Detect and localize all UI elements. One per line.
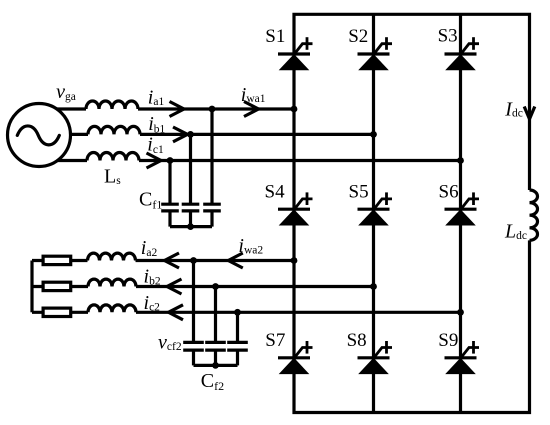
inductor load b — [88, 279, 136, 286]
resistor load c — [43, 308, 71, 316]
node phase c / Cf1 tap — [167, 157, 174, 164]
wire capacitor branch a1 — [210, 109, 213, 227]
resistor load b — [43, 282, 71, 290]
arrow ia1 — [170, 102, 185, 117]
wire converter leg 3 — [459, 14, 462, 412]
node load b / leg2 — [370, 283, 377, 290]
resistor load a — [43, 256, 71, 264]
svg-text:S7: S7 — [265, 330, 285, 351]
svg-text:S9: S9 — [438, 330, 458, 351]
arrow iwa1 — [244, 102, 259, 117]
wire load bus left — [30, 261, 33, 313]
capacitor Cf2 c plates — [227, 342, 248, 350]
inductor Ldc — [530, 190, 538, 240]
arrow ic1 — [147, 153, 162, 168]
wire load row a2 — [32, 259, 294, 262]
node phase c / leg3 — [457, 157, 464, 164]
wire Cf1 star bus — [170, 225, 212, 228]
node phase b / Cf1 tap — [187, 131, 194, 138]
switch S5 — [358, 192, 393, 225]
wire capacitor branch a2 — [192, 261, 195, 366]
arrow ib2 — [167, 279, 182, 294]
wire capacitor branch c2 — [236, 312, 239, 365]
svg-text:S8: S8 — [347, 330, 367, 351]
wire capacitor branch b2 — [214, 287, 217, 366]
switch S4 — [278, 192, 313, 225]
switch S6 — [445, 192, 480, 225]
wire phase a — [39, 107, 294, 110]
inductor Ls phase b — [88, 126, 140, 134]
node phase b / leg2 — [370, 131, 377, 138]
node load a / Cf2 tap — [190, 257, 197, 264]
inductor Ls phase a — [86, 101, 138, 109]
switch S8 — [358, 341, 393, 374]
node load c / Cf2 tap — [234, 309, 241, 316]
capacitor Cf1 a plates — [203, 204, 221, 211]
wire capacitor branch c1 — [168, 161, 171, 227]
capacitor Cf1 b plates — [182, 204, 200, 211]
switch S3 — [445, 37, 480, 70]
arrow ia2 — [165, 253, 180, 268]
svg-text:S1: S1 — [265, 26, 285, 47]
wire load row c2 — [32, 311, 461, 314]
svg-text:S4: S4 — [265, 181, 286, 202]
inductor Ls phase c — [87, 153, 139, 161]
wire load row b2 — [32, 285, 374, 288]
arrow ic2 — [169, 305, 184, 320]
wire phase b — [39, 133, 374, 136]
node load b / Cf2 tap — [212, 283, 219, 290]
wire phase c — [39, 159, 461, 162]
node Cf1 star — [187, 223, 194, 230]
switch S1 — [278, 37, 313, 70]
switch S7 — [278, 341, 313, 374]
node Cf2 star — [212, 362, 219, 369]
svg-text:S5: S5 — [349, 181, 369, 202]
arrow iwa2 — [228, 253, 243, 268]
arrow ib1 — [173, 127, 188, 142]
capacitor Cf2 a plates — [183, 342, 204, 350]
node phase a / Cf1 tap — [209, 106, 216, 113]
wire capacitor branch b1 — [189, 134, 192, 226]
inductor load c — [88, 305, 136, 312]
node load a / leg1 — [291, 257, 298, 264]
svg-text:S2: S2 — [348, 26, 368, 47]
switch S2 — [358, 37, 393, 70]
switch S9 — [445, 341, 480, 374]
wire Cf2 star bus — [194, 364, 238, 367]
node load c / leg3 — [457, 309, 464, 316]
wire converter leg 2 — [372, 14, 375, 412]
inductor load a — [88, 253, 136, 260]
arrow Idc — [524, 107, 535, 120]
node phase a / leg1 — [291, 106, 298, 113]
svg-text:S6: S6 — [439, 181, 459, 202]
svg-text:S3: S3 — [438, 26, 458, 47]
ac source vga — [8, 104, 71, 167]
wire dc outer loop: bottom rail, leg 1, top rail, right link upper — [294, 14, 530, 412]
capacitor Cf1 c plates — [161, 204, 179, 211]
capacitor Cf2 b plates — [205, 342, 226, 350]
